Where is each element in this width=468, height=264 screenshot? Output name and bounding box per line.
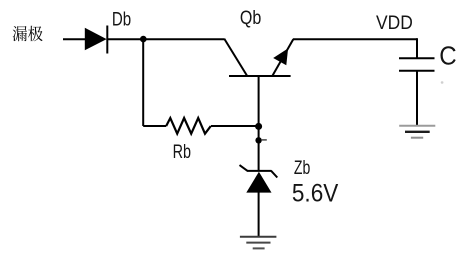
svg-text:VDD: VDD <box>376 12 413 34</box>
svg-text:Db: Db <box>112 9 131 31</box>
svg-text:C: C <box>439 40 456 70</box>
svg-text:5.6V: 5.6V <box>292 179 339 207</box>
svg-text:Qb: Qb <box>240 7 261 29</box>
svg-text:Rb: Rb <box>173 141 191 163</box>
svg-text:Zb: Zb <box>294 157 310 179</box>
